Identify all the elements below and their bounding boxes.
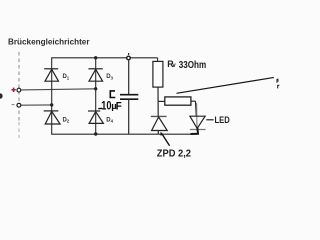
svg-text:LED: LED — [215, 115, 231, 125]
svg-text:10: 10 — [101, 98, 111, 112]
svg-text:F: F — [116, 100, 122, 112]
svg-text:33Ohm: 33Ohm — [179, 60, 207, 71]
svg-text:Brückengleichrichter: Brückengleichrichter — [8, 36, 90, 46]
svg-text:ZPD 2,2: ZPD 2,2 — [157, 148, 191, 160]
